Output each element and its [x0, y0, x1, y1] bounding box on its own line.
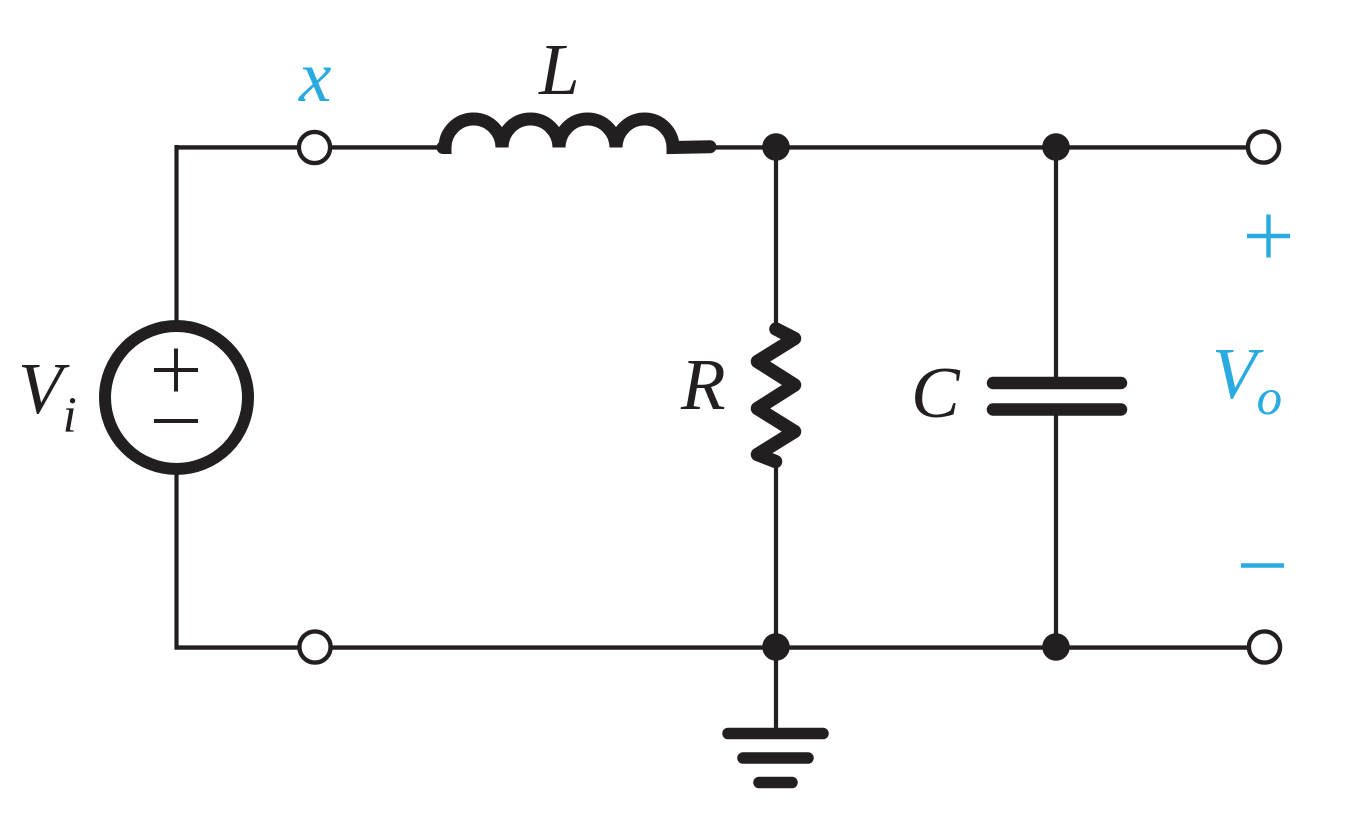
wire from node x to inductor	[330, 145, 446, 149]
junction dot top at C	[1042, 133, 1070, 161]
wire left vertical upper (source to top rail)	[174, 145, 178, 327]
ground bar 3	[759, 777, 792, 789]
ground bar 1	[728, 728, 823, 740]
voltage source minus sign	[154, 419, 198, 423]
terminal (open circle) top right	[1248, 131, 1279, 162]
label + (output polarity)	[1247, 215, 1290, 258]
inductor L (4 humps)	[443, 119, 710, 148]
ground bar 2	[743, 752, 808, 764]
voltage source Vi circle	[105, 326, 248, 469]
label - (output polarity)	[1241, 563, 1284, 568]
open terminal circle bottom left	[299, 631, 330, 662]
wire C branch upper	[1054, 147, 1058, 379]
wire C branch lower	[1054, 414, 1058, 647]
junction dot bottom at C	[1042, 633, 1070, 661]
voltage source plus sign	[154, 368, 198, 372]
svg-text:C: C	[911, 352, 961, 433]
svg-text:R: R	[680, 344, 726, 425]
wire bottom-left horizontal to bottom terminal circle	[175, 645, 300, 649]
wire bottom rail to right terminal	[331, 645, 1249, 649]
wire left vertical lower (source to bottom rail)	[174, 468, 178, 649]
wire ground tap	[774, 647, 778, 731]
junction dot bottom at R	[762, 633, 790, 661]
svg-text:x: x	[298, 36, 331, 117]
wire top-left horizontal from source branch to node x	[175, 145, 300, 149]
svg-text:L: L	[538, 29, 580, 110]
terminal (open circle) bottom right	[1249, 631, 1280, 662]
node x (open terminal circle)	[299, 132, 330, 163]
wire top rail from inductor to right terminal	[712, 145, 1247, 149]
junction dot top at R	[762, 133, 790, 161]
capacitor C top plate	[993, 377, 1121, 390]
wire R branch upper	[774, 147, 778, 325]
wire R branch lower	[774, 460, 778, 647]
resistor R zigzag	[758, 329, 795, 462]
capacitor C bottom plate	[993, 403, 1121, 416]
